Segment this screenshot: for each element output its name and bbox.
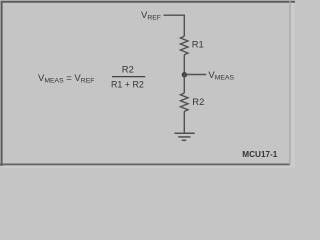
equation VMEAS = VREF * R2/(R1+R2) — [38, 64, 145, 90]
wire VREF to R1 (horizontal then corner down) — [164, 15, 185, 36]
ground — [175, 133, 195, 140]
svg-text:R1 + R2: R1 + R2 — [111, 79, 144, 89]
resistor R2 — [180, 93, 188, 111]
resistor R1 — [180, 36, 188, 55]
svg-text:R2: R2 — [122, 64, 134, 75]
svg-text:R1: R1 — [192, 39, 204, 50]
wire junction to R2 — [183, 75, 185, 94]
junction node VMEAS — [182, 72, 187, 77]
wire R1 to junction — [183, 55, 185, 75]
svg-text:R2: R2 — [192, 96, 204, 107]
svg-text:MCU17-1: MCU17-1 — [242, 150, 277, 159]
wire R2 to ground — [183, 111, 185, 133]
wire junction to VMEAS label — [184, 74, 206, 76]
